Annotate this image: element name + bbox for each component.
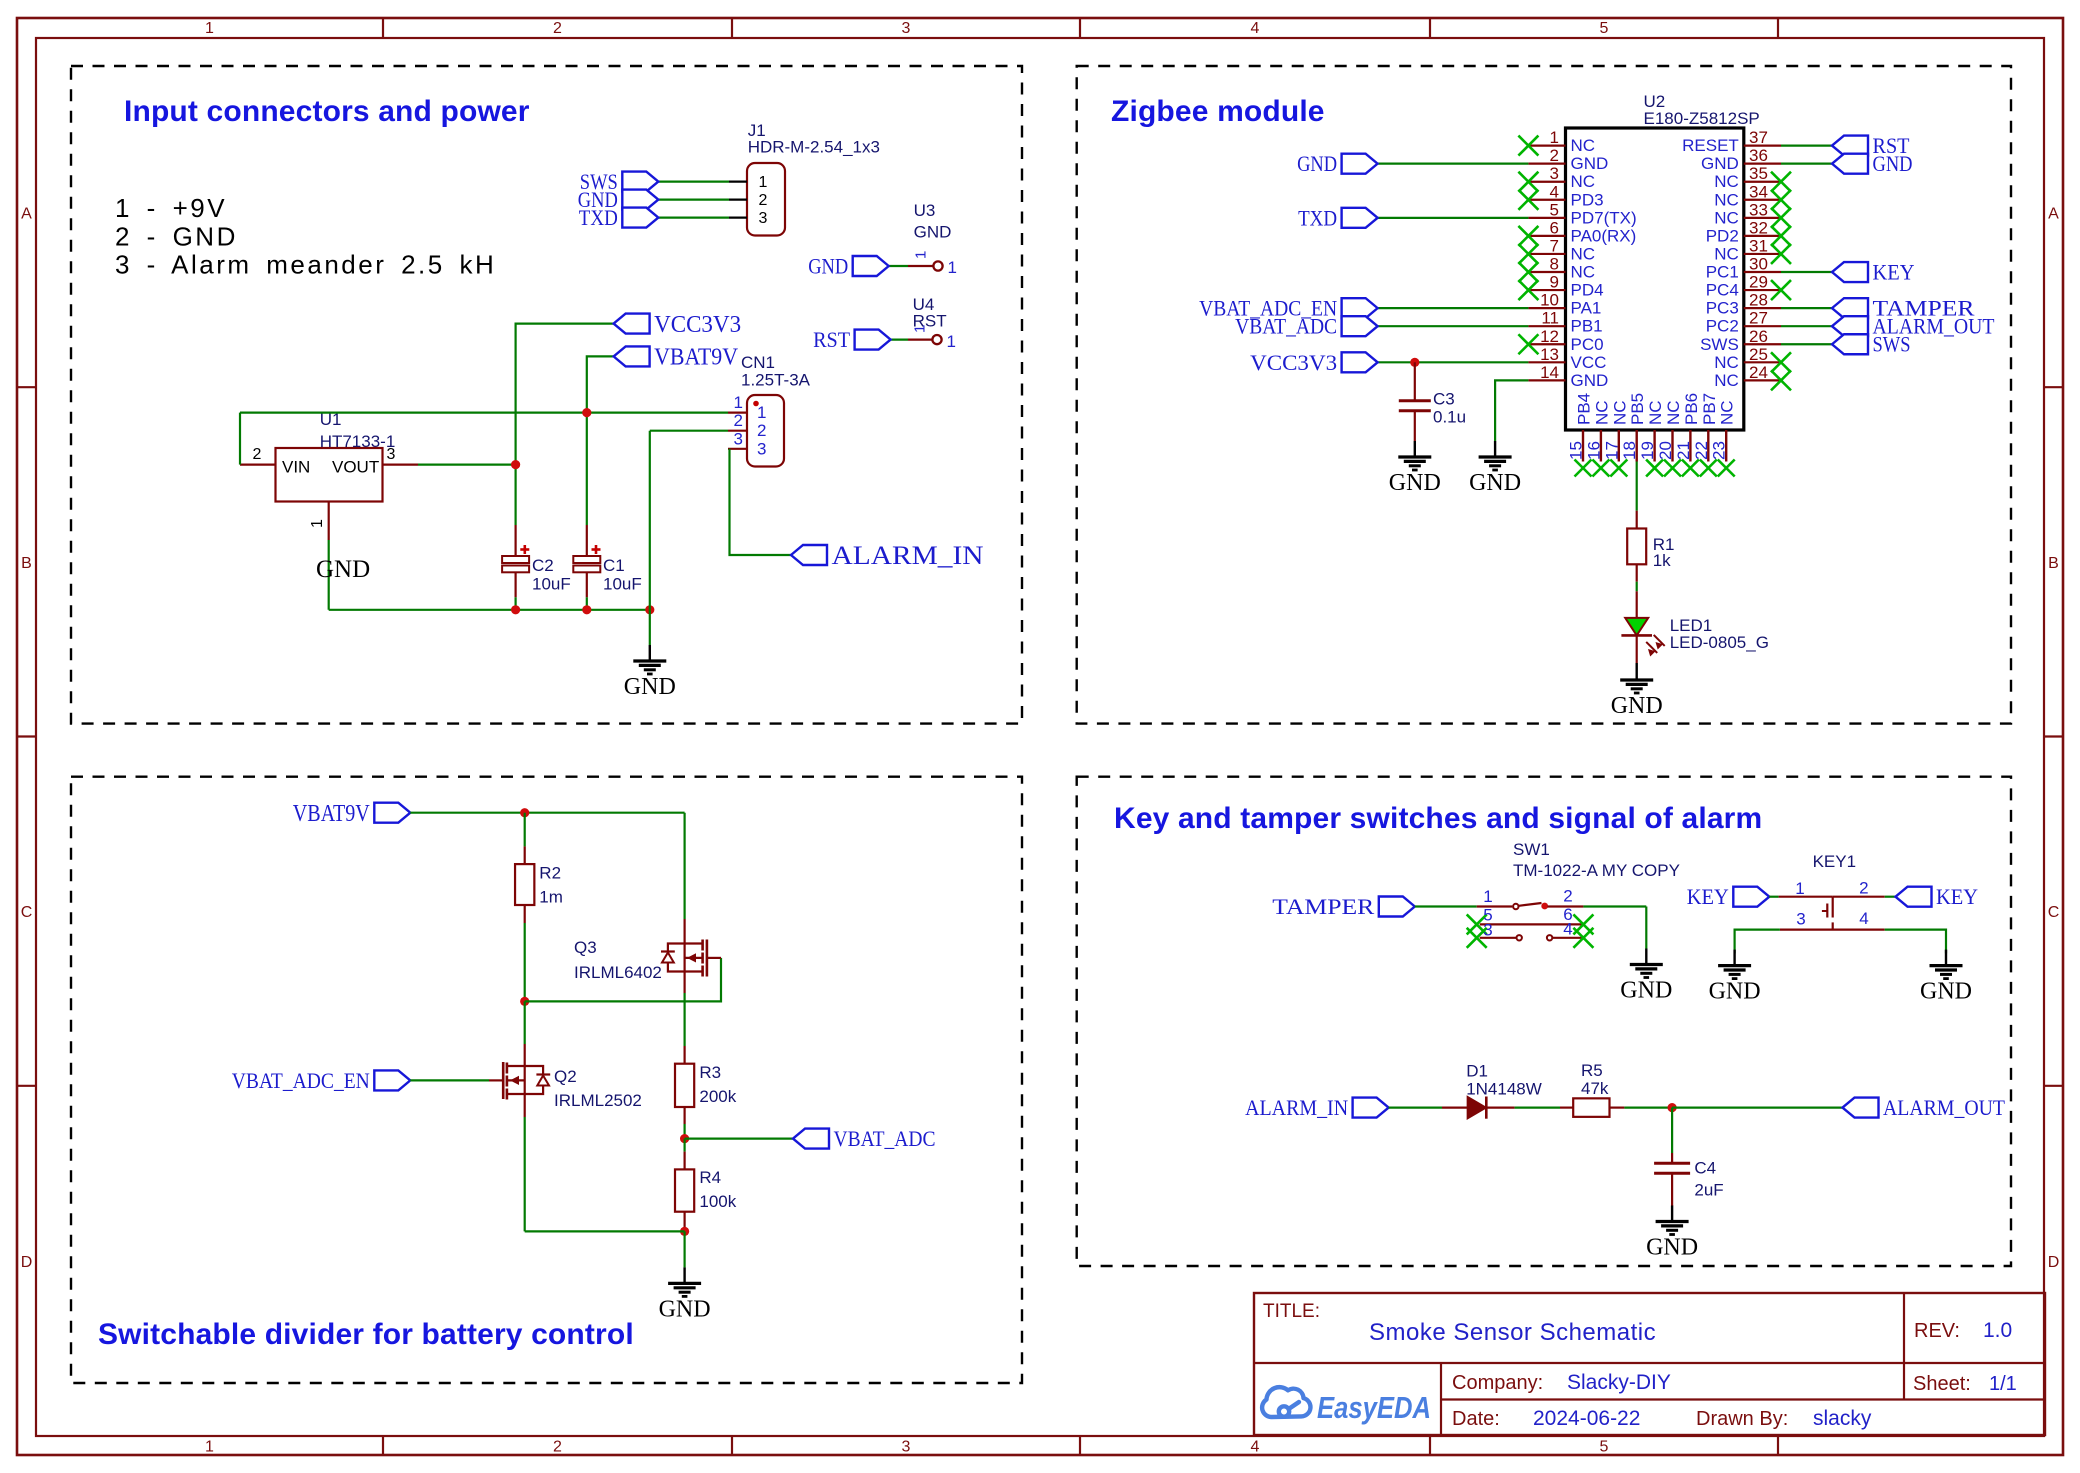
svg-text:PD7(TX): PD7(TX)	[1571, 208, 1637, 227]
svg-text:34: 34	[1749, 182, 1768, 201]
svg-text:2: 2	[1859, 879, 1868, 898]
svg-text:VCC: VCC	[1571, 353, 1607, 372]
svg-text:TXD: TXD	[579, 205, 618, 230]
svg-text:2: 2	[253, 446, 262, 463]
svg-text:Key and tamper switches and si: Key and tamper switches and signal of al…	[1114, 802, 1762, 835]
svg-text:SWS: SWS	[1700, 335, 1739, 354]
svg-text:30: 30	[1749, 255, 1768, 274]
svg-text:1: 1	[205, 1439, 214, 1456]
svg-text:1.0: 1.0	[1983, 1319, 2012, 1342]
svg-text:2: 2	[734, 411, 743, 430]
svg-text:GND: GND	[659, 1296, 711, 1322]
svg-text:14: 14	[1540, 363, 1559, 382]
svg-text:3: 3	[387, 446, 396, 463]
svg-text:PA0(RX): PA0(RX)	[1571, 226, 1637, 245]
svg-text:7: 7	[1550, 236, 1559, 255]
svg-text:R4: R4	[699, 1168, 721, 1187]
svg-text:NC: NC	[1718, 400, 1737, 425]
svg-text:VCC3V3: VCC3V3	[654, 312, 741, 338]
svg-text:NC: NC	[1714, 208, 1739, 227]
svg-text:GND: GND	[914, 222, 952, 241]
svg-text:3: 3	[1796, 910, 1805, 929]
svg-text:PB5: PB5	[1628, 393, 1647, 425]
svg-text:GND: GND	[1873, 151, 1913, 176]
svg-text:PC1: PC1	[1706, 263, 1739, 282]
svg-text:2: 2	[1550, 146, 1559, 165]
svg-text:1k: 1k	[1653, 551, 1671, 570]
svg-text:2: 2	[1563, 887, 1572, 906]
svg-text:VBAT_ADC_EN: VBAT_ADC_EN	[232, 1068, 370, 1093]
svg-text:21: 21	[1674, 441, 1693, 460]
svg-text:24: 24	[1749, 363, 1768, 382]
svg-text:C1: C1	[603, 556, 625, 575]
svg-text:PD3: PD3	[1571, 190, 1604, 209]
svg-text:1: 1	[734, 393, 743, 412]
svg-text:NC: NC	[1646, 400, 1665, 425]
svg-text:GND: GND	[1297, 151, 1337, 176]
svg-text:GND: GND	[1571, 154, 1609, 173]
svg-text:10uF: 10uF	[603, 575, 642, 594]
svg-text:1: 1	[913, 251, 930, 259]
svg-text:C: C	[21, 904, 33, 921]
svg-text:GND: GND	[1920, 979, 1972, 1005]
svg-text:C4: C4	[1694, 1158, 1716, 1177]
svg-text:10: 10	[1540, 291, 1559, 310]
svg-text:EasyEDA: EasyEDA	[1317, 1390, 1431, 1425]
svg-text:GND: GND	[624, 674, 676, 700]
svg-text:17: 17	[1602, 441, 1621, 460]
svg-text:GND: GND	[1611, 693, 1663, 719]
svg-text:8: 8	[1550, 255, 1559, 274]
svg-text:VBAT9V: VBAT9V	[654, 345, 739, 371]
svg-text:VCC3V3: VCC3V3	[1250, 350, 1337, 375]
svg-text:31: 31	[1749, 236, 1768, 255]
svg-text:NC: NC	[1714, 353, 1739, 372]
svg-text:13: 13	[1540, 345, 1559, 364]
svg-text:PB1: PB1	[1571, 317, 1603, 336]
svg-text:Smoke Sensor Schematic: Smoke Sensor Schematic	[1369, 1319, 1656, 1346]
svg-text:32: 32	[1749, 218, 1768, 237]
svg-text:NC: NC	[1592, 400, 1611, 425]
svg-text:0.1u: 0.1u	[1433, 408, 1466, 427]
svg-text:6: 6	[1550, 218, 1559, 237]
svg-text:2: 2	[553, 1439, 562, 1456]
svg-text:NC: NC	[1714, 172, 1739, 191]
svg-text:29: 29	[1749, 273, 1768, 292]
svg-text:1: 1	[757, 403, 766, 422]
svg-text:1: 1	[948, 258, 957, 277]
svg-text:3: 3	[1550, 164, 1559, 183]
svg-text:KEY1: KEY1	[1813, 852, 1856, 871]
svg-text:Input connectors and power: Input connectors and power	[124, 95, 530, 128]
svg-text:NC: NC	[1664, 400, 1683, 425]
svg-text:SW1: SW1	[1513, 840, 1550, 859]
svg-text:B: B	[2048, 555, 2059, 572]
svg-text:37: 37	[1749, 128, 1768, 147]
svg-text:NC: NC	[1610, 400, 1629, 425]
svg-text:2: 2	[553, 20, 562, 37]
svg-text:2uF: 2uF	[1694, 1181, 1723, 1200]
svg-text:Company:: Company:	[1452, 1372, 1543, 1394]
svg-text:1m: 1m	[539, 888, 563, 907]
svg-text:NC: NC	[1571, 244, 1596, 263]
svg-text:GND: GND	[1469, 470, 1521, 496]
svg-text:25: 25	[1749, 345, 1768, 364]
svg-text:12: 12	[1540, 327, 1559, 346]
svg-text:REV:: REV:	[1914, 1320, 1960, 1342]
svg-text:33: 33	[1749, 200, 1768, 219]
svg-text:47k: 47k	[1581, 1079, 1609, 1098]
svg-text:Switchable divider for battery: Switchable divider for battery control	[98, 1318, 634, 1351]
svg-text:15: 15	[1567, 441, 1586, 460]
svg-text:TXD: TXD	[1298, 205, 1337, 230]
svg-text:U3: U3	[914, 201, 936, 220]
svg-text:GND: GND	[1701, 154, 1739, 173]
svg-text:1.25T-3A: 1.25T-3A	[741, 370, 811, 389]
svg-text:26: 26	[1749, 327, 1768, 346]
svg-text:RST: RST	[813, 327, 851, 352]
svg-text:PC4: PC4	[1706, 281, 1739, 300]
svg-text:PD2: PD2	[1706, 226, 1739, 245]
svg-text:R5: R5	[1581, 1061, 1603, 1080]
svg-text:NC: NC	[1714, 244, 1739, 263]
svg-text:2: 2	[759, 192, 768, 209]
svg-text:Sheet:: Sheet:	[1913, 1373, 1971, 1395]
svg-text:5: 5	[1600, 1439, 1609, 1456]
svg-text:23: 23	[1710, 441, 1729, 460]
svg-text:slacky: slacky	[1813, 1407, 1872, 1430]
svg-text:Q3: Q3	[574, 938, 597, 957]
svg-text:Slacky-DIY: Slacky-DIY	[1567, 1371, 1671, 1394]
svg-text:PC0: PC0	[1571, 335, 1604, 354]
svg-text:3: 3	[902, 1439, 911, 1456]
svg-text:1: 1	[947, 332, 956, 351]
svg-text:TM-1022-A MY COPY: TM-1022-A MY COPY	[1513, 861, 1680, 880]
svg-text:GND: GND	[316, 556, 370, 583]
svg-text:RESET: RESET	[1682, 136, 1739, 155]
svg-text:C: C	[2048, 904, 2060, 921]
svg-text:1: 1	[1795, 879, 1804, 898]
svg-text:CN1: CN1	[741, 353, 775, 372]
svg-text:22: 22	[1692, 441, 1711, 460]
svg-text:GND: GND	[808, 253, 848, 278]
svg-text:LED-0805_G: LED-0805_G	[1670, 633, 1769, 652]
svg-text:KEY: KEY	[1936, 884, 1978, 909]
svg-text:A: A	[2048, 206, 2059, 223]
svg-text:5: 5	[1600, 20, 1609, 37]
svg-text:PC3: PC3	[1706, 299, 1739, 318]
svg-text:ALARM_OUT: ALARM_OUT	[1883, 1095, 2005, 1120]
svg-text:VBAT_ADC: VBAT_ADC	[834, 1126, 936, 1151]
svg-text:1N4148W: 1N4148W	[1466, 1080, 1542, 1099]
svg-text:1 - +9V: 1 - +9V	[115, 193, 227, 223]
svg-text:36: 36	[1749, 146, 1768, 165]
svg-text:1: 1	[1483, 887, 1492, 906]
svg-text:B: B	[21, 555, 32, 572]
svg-text:GND: GND	[1646, 1235, 1698, 1261]
svg-text:GND: GND	[1620, 978, 1672, 1004]
svg-text:VBAT_ADC: VBAT_ADC	[1235, 314, 1337, 339]
svg-text:2: 2	[757, 421, 766, 440]
svg-text:4: 4	[1563, 920, 1572, 939]
svg-text:10uF: 10uF	[532, 575, 571, 594]
svg-text:3: 3	[902, 20, 911, 37]
svg-text:11: 11	[1541, 309, 1559, 328]
svg-text:TITLE:: TITLE:	[1263, 1301, 1320, 1322]
svg-text:PD4: PD4	[1571, 281, 1604, 300]
svg-text:PB6: PB6	[1682, 393, 1701, 425]
svg-text:PC2: PC2	[1706, 317, 1739, 336]
svg-text:NC: NC	[1571, 172, 1596, 191]
svg-text:Q2: Q2	[554, 1067, 577, 1086]
svg-text:27: 27	[1749, 309, 1768, 328]
svg-text:D: D	[2048, 1254, 2060, 1271]
svg-text:VOUT: VOUT	[332, 457, 379, 476]
svg-text:4: 4	[1251, 20, 1260, 37]
svg-text:ALARM_IN: ALARM_IN	[1245, 1095, 1348, 1120]
svg-text:PB7: PB7	[1700, 393, 1719, 425]
svg-text:16: 16	[1584, 441, 1603, 460]
svg-text:28: 28	[1749, 291, 1768, 310]
svg-text:1: 1	[1550, 128, 1559, 147]
svg-text:1: 1	[205, 20, 214, 37]
svg-text:1: 1	[912, 325, 929, 333]
svg-text:3: 3	[759, 210, 768, 227]
svg-text:3: 3	[757, 439, 766, 458]
svg-text:NC: NC	[1571, 263, 1596, 282]
svg-text:R3: R3	[699, 1063, 721, 1082]
svg-text:A: A	[21, 206, 32, 223]
svg-text:5: 5	[1550, 200, 1559, 219]
svg-text:D: D	[21, 1254, 33, 1271]
svg-text:HDR-M-2.54_1x3: HDR-M-2.54_1x3	[748, 138, 880, 157]
svg-text:GND: GND	[1389, 470, 1441, 496]
svg-text:18: 18	[1620, 441, 1639, 460]
svg-text:35: 35	[1749, 164, 1768, 183]
svg-text:9: 9	[1550, 273, 1559, 292]
svg-text:C3: C3	[1433, 390, 1455, 409]
svg-text:1/1: 1/1	[1989, 1373, 2017, 1395]
svg-text:GND: GND	[1571, 371, 1609, 390]
svg-text:R2: R2	[539, 864, 561, 883]
svg-text:NC: NC	[1714, 371, 1739, 390]
svg-text:Zigbee module: Zigbee module	[1111, 95, 1325, 128]
svg-text:ALARM_IN: ALARM_IN	[832, 541, 984, 570]
svg-text:20: 20	[1656, 441, 1675, 460]
svg-text:3 - Alarm meander 2.5 kH: 3 - Alarm meander 2.5 kH	[115, 250, 496, 280]
svg-text:D1: D1	[1466, 1061, 1488, 1080]
svg-text:3: 3	[1483, 920, 1492, 939]
svg-text:C2: C2	[532, 556, 554, 575]
svg-text:1: 1	[309, 519, 326, 528]
svg-text:4: 4	[1251, 1439, 1260, 1456]
svg-text:2024-06-22: 2024-06-22	[1533, 1407, 1640, 1430]
svg-text:2 - GND: 2 - GND	[115, 221, 238, 251]
svg-text:200k: 200k	[699, 1087, 736, 1106]
svg-text:NC: NC	[1571, 136, 1596, 155]
svg-text:GND: GND	[1709, 979, 1761, 1005]
svg-text:TAMPER: TAMPER	[1272, 894, 1374, 919]
svg-text:SWS: SWS	[1873, 332, 1911, 357]
svg-text:1: 1	[759, 174, 768, 191]
svg-text:VBAT9V: VBAT9V	[293, 801, 371, 827]
svg-text:PB4: PB4	[1575, 393, 1594, 425]
svg-text:E180-Z5812SP: E180-Z5812SP	[1644, 109, 1760, 128]
svg-text:100k: 100k	[699, 1192, 736, 1211]
svg-text:IRLML6402: IRLML6402	[574, 963, 662, 982]
svg-text:VIN: VIN	[282, 457, 310, 476]
svg-text:PA1: PA1	[1571, 299, 1602, 318]
svg-text:3: 3	[734, 429, 743, 448]
svg-text:19: 19	[1638, 441, 1657, 460]
svg-text:KEY: KEY	[1873, 260, 1915, 285]
svg-text:KEY: KEY	[1687, 884, 1729, 909]
svg-text:Date:: Date:	[1452, 1408, 1500, 1430]
svg-text:IRLML2502: IRLML2502	[554, 1091, 642, 1110]
svg-text:4: 4	[1550, 182, 1559, 201]
svg-text:Drawn By:: Drawn By:	[1696, 1408, 1788, 1430]
svg-text:NC: NC	[1714, 190, 1739, 209]
svg-text:4: 4	[1859, 909, 1868, 928]
